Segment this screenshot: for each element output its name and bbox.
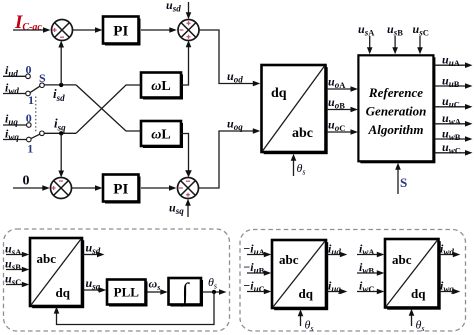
summing junction SJ3 — [51, 178, 72, 199]
svg-text:dq: dq — [271, 86, 287, 101]
wire u_wB output — [435, 136, 473, 142]
svg-text:uoA: uoA — [328, 75, 346, 91]
wire u_sd down into SJ2 — [186, 2, 192, 19]
wire u_oA from U1 to reference block — [327, 86, 359, 92]
wire u_uA output — [435, 62, 473, 68]
wire switch S2 pole to i_sq node — [44, 131, 76, 135]
wire 0 into summing junction SJ3 — [13, 185, 50, 191]
integrator block U5 — [169, 278, 204, 307]
wire u_uB output — [435, 83, 473, 89]
wire i_wq out of U7 — [440, 289, 461, 295]
wire SJ3 to PI controller PI2 — [72, 185, 103, 191]
wire i_sq cross-coupling diagonal to wL1 — [76, 85, 141, 133]
svg-text:isd: isd — [53, 86, 65, 103]
svg-text:abc: abc — [279, 252, 299, 267]
dotted mechanical link between switches — [35, 97, 37, 132]
wire i_ud to switch contact 0 — [3, 75, 26, 77]
svg-text:usB: usB — [387, 22, 403, 38]
svg-text:dq: dq — [411, 286, 426, 301]
wire u_uC output — [435, 104, 473, 110]
svg-text:PI: PI — [113, 182, 128, 198]
svg-text:dq: dq — [56, 285, 71, 300]
reference generation algorithm block U2 — [358, 55, 435, 163]
PI controller block PI2 — [103, 175, 141, 204]
decoupling block wL2 — [141, 121, 183, 148]
svg-text:usq: usq — [86, 276, 101, 292]
svg-text:Reference: Reference — [368, 85, 423, 100]
wire switch S1 pole to i_sd node — [44, 83, 76, 87]
svg-text:PLL: PLL — [114, 285, 140, 300]
wire PI2 to multiplier junction SJ4 — [141, 185, 177, 191]
wire i_wB into U7 — [357, 270, 384, 276]
svg-text:uuA: uuA — [442, 53, 461, 69]
wire theta_s into U6 bottom — [298, 309, 304, 326]
wire i_wC into U7 — [357, 289, 384, 295]
wire i_wA into U7 — [357, 252, 384, 258]
decoupling block wL1 — [141, 73, 183, 100]
wire u_oB from U1 to reference block — [327, 107, 359, 113]
wire wL1 output up into SJ2 — [181, 40, 191, 85]
wire u_wC output — [435, 150, 473, 156]
svg-text:abc: abc — [392, 252, 412, 267]
wire S up into U2 bottom — [395, 163, 401, 194]
svg-text:usA: usA — [358, 22, 375, 38]
svg-text:uuB: uuB — [442, 73, 460, 89]
svg-text:Generation: Generation — [366, 104, 427, 119]
svg-text:abc: abc — [292, 126, 313, 141]
svg-text:ωs: ωs — [149, 277, 161, 293]
svg-text:uoq: uoq — [227, 117, 243, 133]
svg-text:θs: θs — [297, 161, 306, 177]
svg-text:uoB: uoB — [328, 95, 345, 111]
wire u_sq up into SJ4 — [185, 199, 191, 217]
wire u_sB down into U2 — [392, 36, 398, 54]
wire i_ud out of U6 — [327, 252, 347, 258]
svg-text:Algorithm: Algorithm — [368, 122, 424, 137]
svg-text:usC: usC — [413, 22, 429, 38]
dashed enclosure PLL subsystem — [4, 229, 230, 331]
wire PI1 to multiplier junction SJ2 — [141, 27, 177, 33]
abc to dq converter block U7 — [385, 239, 441, 310]
summing junction SJ4 — [178, 178, 199, 199]
summing junction SJ2 — [178, 20, 199, 41]
svg-text:∫: ∫ — [180, 279, 190, 307]
wire i_uq out of U6 — [327, 289, 347, 295]
svg-text:1: 1 — [27, 142, 33, 156]
svg-text:PI: PI — [113, 24, 128, 40]
wire i_wd to switch contact 1 — [3, 93, 26, 95]
wire -i_uA into U6 — [247, 252, 271, 258]
wire u_sq from U3 to PLL — [83, 287, 106, 293]
abc to dq converter block U3 — [30, 238, 84, 308]
switch S1 contacts and arm — [26, 74, 45, 96]
svg-text:θs: θs — [305, 318, 314, 334]
wire i_uq to switch contact 0 — [3, 124, 27, 126]
wire u_sC into U3 — [6, 282, 29, 288]
svg-text:abc: abc — [37, 251, 57, 266]
svg-text:usd: usd — [166, 0, 181, 14]
abc to dq converter block U6 — [272, 240, 328, 310]
wire i_wq to switch contact 1 — [3, 139, 27, 141]
wire theta_s feedback to U3 — [54, 292, 214, 325]
wire u_sd out of U3 — [83, 252, 105, 258]
PLL block U4 — [107, 280, 148, 307]
wire I_C-ac into summing junction SJ1 — [13, 27, 51, 33]
wire SJ2 output u_od to dq-abc converter — [199, 30, 260, 86]
svg-text:0: 0 — [23, 174, 30, 189]
switch S2 contacts and arm — [27, 123, 45, 142]
wire u_sA down into U2 — [367, 36, 373, 54]
wire theta_s into U1 bottom — [291, 154, 297, 176]
PI controller block PI1 — [103, 17, 141, 46]
summing junction SJ1 — [52, 20, 73, 41]
wire u_sA into U3 — [6, 252, 29, 258]
svg-text:uwC: uwC — [442, 140, 461, 156]
wire PLL to integrator — [148, 289, 168, 295]
svg-text:ωL: ωL — [151, 79, 170, 94]
svg-text:θs: θs — [208, 275, 217, 291]
wire theta_s into U7 bottom — [409, 309, 415, 326]
dq to abc converter block U1 — [262, 65, 328, 154]
svg-text:uoC: uoC — [328, 118, 345, 134]
svg-text:dq: dq — [299, 286, 314, 301]
wire SJ4 output u_oq to dq-abc converter — [199, 128, 261, 188]
svg-text:uuC: uuC — [442, 94, 460, 110]
svg-text:usq: usq — [169, 201, 184, 217]
wire -i_uC into U6 — [247, 289, 271, 295]
dashed enclosure current transform subsystem — [240, 230, 466, 332]
wire u_wA output — [435, 121, 473, 127]
wire -i_uB into U6 — [247, 270, 271, 276]
svg-text:θs: θs — [416, 318, 425, 334]
wire SJ1 to PI controller — [73, 27, 103, 33]
svg-text:S: S — [400, 175, 407, 190]
wire wL2 output down into SJ4 — [181, 134, 192, 178]
wire u_sB into U3 — [6, 267, 29, 273]
wire i_sd cross-coupling diagonal to wL2 — [76, 85, 141, 131]
wire i_sq feedback down into SJ3 — [58, 133, 64, 177]
wire u_sC down into U2 — [417, 36, 423, 54]
svg-text:isq: isq — [54, 116, 66, 133]
wire u_oC from U1 to reference block — [327, 129, 359, 135]
wire i_sd feedback up into SJ1 — [58, 41, 64, 85]
svg-text:uod: uod — [227, 69, 243, 85]
svg-text:ωL: ωL — [151, 128, 170, 143]
svg-text:uwA: uwA — [442, 111, 462, 127]
wire i_wd out of U7 — [440, 252, 461, 258]
wire theta_s output with node — [202, 289, 227, 295]
